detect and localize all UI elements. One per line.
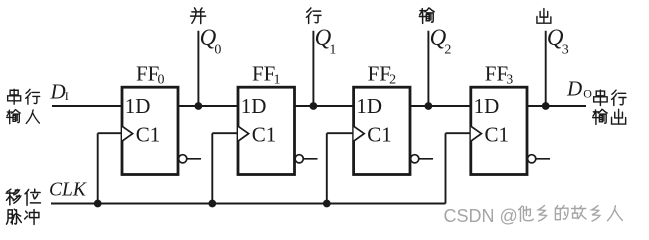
svg-text:CLK: CLK [49, 179, 87, 200]
svg-text:1: 1 [274, 73, 281, 88]
svg-text:D: D [50, 80, 66, 104]
svg-text:C1: C1 [136, 122, 161, 146]
svg-text:2: 2 [444, 43, 451, 58]
svg-text:I: I [65, 89, 69, 103]
svg-text:1D: 1D [474, 94, 500, 118]
svg-text:FF: FF [368, 61, 391, 85]
svg-text:1D: 1D [241, 94, 267, 118]
svg-text:1: 1 [329, 43, 336, 58]
svg-text:FF: FF [136, 61, 159, 85]
svg-text:C1: C1 [252, 122, 277, 146]
svg-text:1D: 1D [125, 94, 151, 118]
svg-text:FF: FF [485, 61, 508, 85]
svg-text:0: 0 [158, 73, 165, 88]
svg-text:FF: FF [252, 61, 275, 85]
svg-text:0: 0 [214, 43, 221, 58]
svg-text:O: O [583, 87, 592, 101]
svg-text:D: D [566, 76, 582, 100]
svg-text:C1: C1 [367, 122, 392, 146]
svg-text:2: 2 [389, 73, 396, 88]
svg-text:1D: 1D [356, 94, 382, 118]
svg-text:3: 3 [562, 43, 569, 58]
svg-text:C1: C1 [485, 122, 510, 146]
svg-text:3: 3 [506, 73, 513, 88]
svg-text:CSDN @: CSDN @ [444, 206, 518, 226]
